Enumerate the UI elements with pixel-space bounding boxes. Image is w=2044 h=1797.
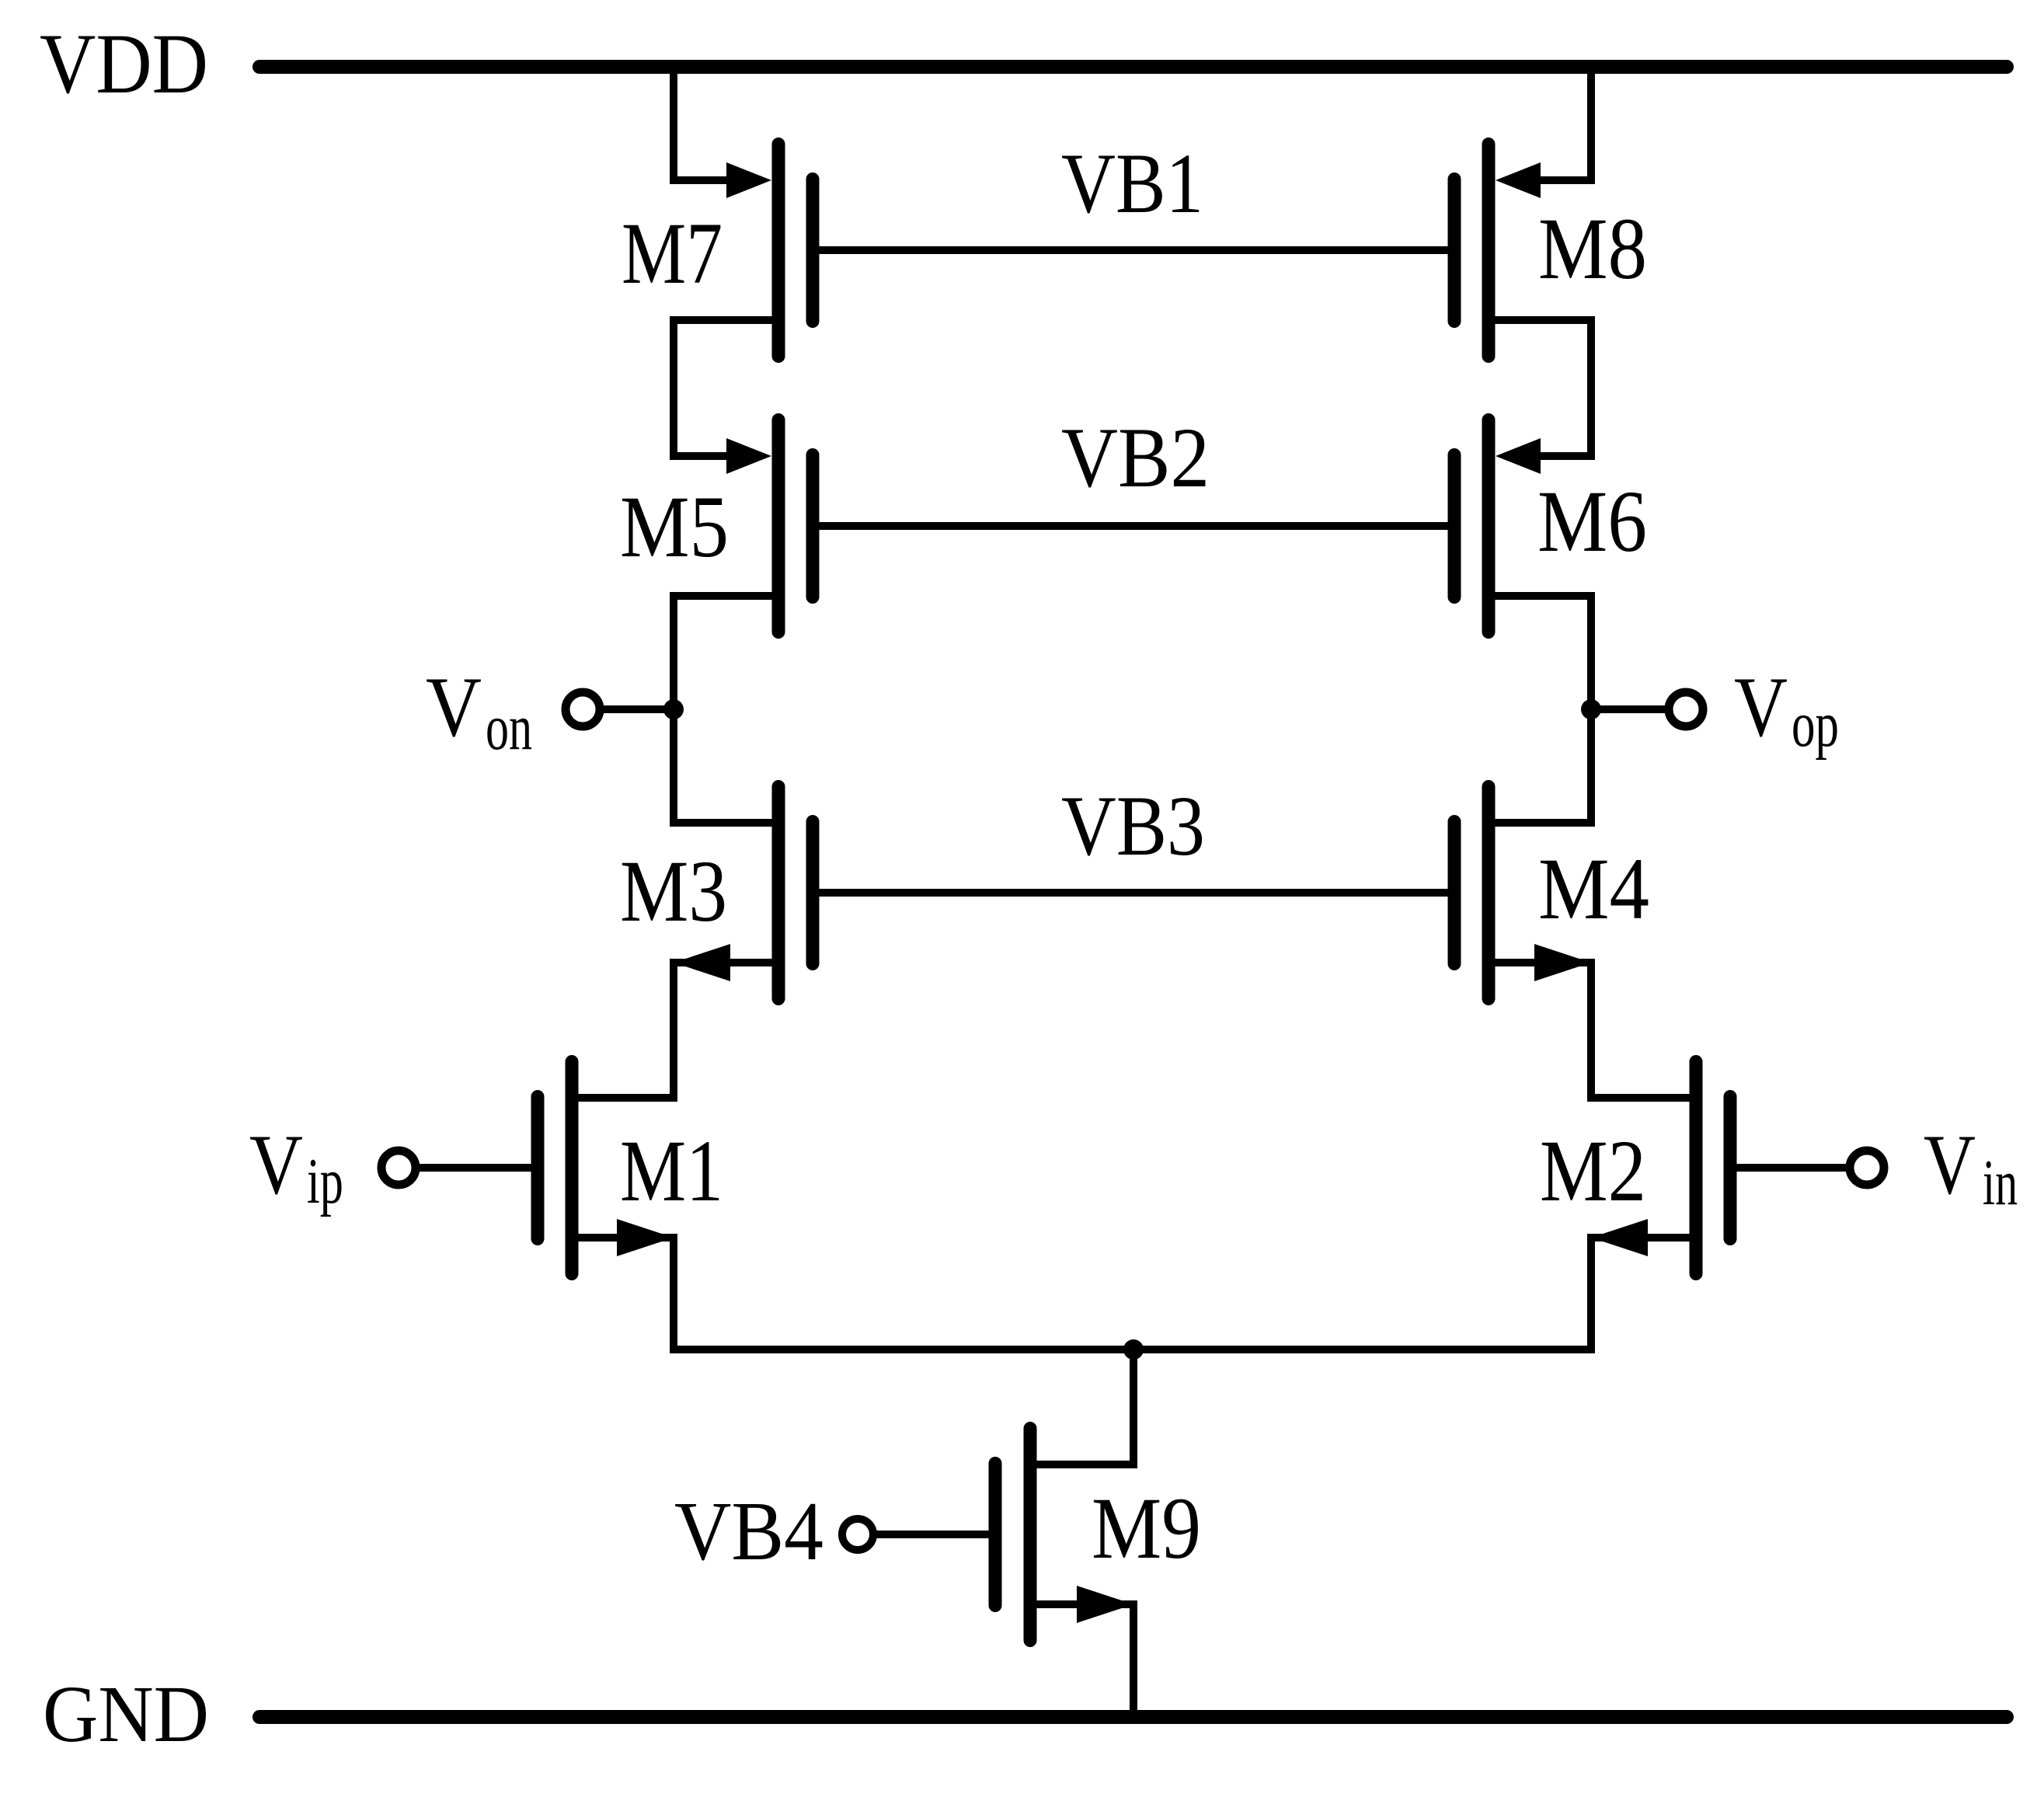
net VB3 wire <box>813 889 1454 897</box>
svg-text:M4: M4 <box>1538 841 1649 938</box>
wire M9 source to GND <box>1030 1604 1133 1717</box>
transistor M1 (NMOS) <box>538 1062 674 1274</box>
svg-text:M1: M1 <box>620 1123 723 1220</box>
wire tail node <box>670 1346 1595 1353</box>
svg-text:M3: M3 <box>620 843 727 940</box>
svg-text:V: V <box>1734 660 1788 754</box>
svg-text:VB2: VB2 <box>1061 410 1210 505</box>
svg-text:V: V <box>1924 1117 1976 1212</box>
wire M5 drain to M3 drain (Von net) <box>674 596 778 823</box>
port Vip terminal <box>381 1151 416 1185</box>
node Vop junction <box>1581 699 1601 719</box>
port Vin lead <box>1730 1164 1846 1172</box>
node Von junction <box>663 699 684 719</box>
wire VDD to M8 source <box>1520 67 1591 180</box>
svg-text:VB1: VB1 <box>1061 136 1203 231</box>
net VB2 wire <box>813 522 1454 530</box>
ground rail GND <box>259 1710 2007 1724</box>
transistor M6 (PMOS) <box>1454 420 1541 632</box>
transistor M9 (NMOS) <box>995 1429 1133 1641</box>
svg-text:on: on <box>486 691 532 764</box>
transistor M2 (NMOS) <box>1591 1062 1730 1274</box>
port Vip lead <box>420 1164 538 1172</box>
wire M2 source to tail <box>1591 1238 1696 1349</box>
wire M6 drain to M4 drain (Vop net) <box>1489 596 1591 823</box>
svg-text:M8: M8 <box>1538 200 1647 298</box>
net VB1 wire <box>813 246 1454 254</box>
transistor M8 (PMOS) <box>1454 145 1541 357</box>
port VB4 terminal <box>842 1519 873 1550</box>
wire M1 source to tail <box>572 1238 674 1349</box>
svg-text:M6: M6 <box>1537 473 1647 570</box>
svg-text:VDD: VDD <box>40 16 208 111</box>
svg-text:in: in <box>1983 1147 2018 1219</box>
svg-text:VB3: VB3 <box>1061 778 1205 873</box>
port VB4 lead <box>873 1531 995 1538</box>
wire M7 drain to M5 source <box>674 320 778 456</box>
power rail VDD <box>259 60 2007 74</box>
svg-text:M9: M9 <box>1092 1480 1201 1577</box>
svg-text:op: op <box>1792 688 1839 761</box>
port Von terminal <box>566 692 600 726</box>
node tail junction <box>1123 1339 1144 1360</box>
wire M4 source to M2 drain <box>1489 963 1696 1098</box>
svg-text:V: V <box>249 1117 303 1212</box>
wire M3 source to M1 drain <box>572 963 778 1098</box>
svg-text:V: V <box>426 660 482 754</box>
transistor M7 (PMOS) <box>726 145 813 357</box>
svg-text:VB4: VB4 <box>674 1485 824 1578</box>
svg-text:M2: M2 <box>1540 1123 1646 1220</box>
wire VDD to M7 source <box>674 67 747 180</box>
transistor M5 (PMOS) <box>726 420 813 632</box>
wire M8 drain to M6 source <box>1489 320 1591 456</box>
svg-text:M5: M5 <box>620 479 729 576</box>
svg-text:ip: ip <box>307 1145 343 1217</box>
port Vop lead <box>1591 705 1665 713</box>
port Von lead <box>604 705 674 713</box>
svg-text:M7: M7 <box>622 205 723 302</box>
transistor M3 (NMOS) <box>674 787 813 999</box>
port Vin terminal <box>1850 1151 1884 1185</box>
svg-text:GND: GND <box>43 1670 209 1759</box>
transistor M4 (NMOS) <box>1454 787 1591 999</box>
wire tail to M9 drain <box>1030 1349 1133 1464</box>
port Vop terminal <box>1669 692 1703 726</box>
